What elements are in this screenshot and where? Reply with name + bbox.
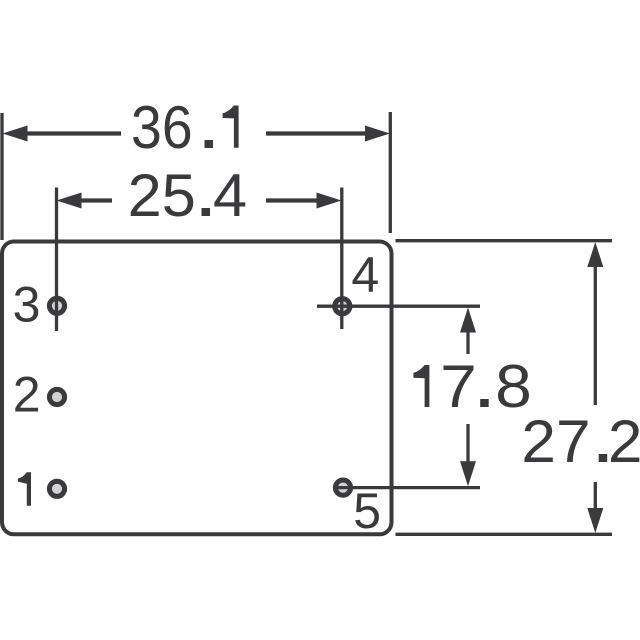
dimension 25.4 left arrow (57, 193, 113, 209)
extension line left of dimension 36.1 (0, 113, 3, 240)
extension line right of dimension 36.1 (389, 112, 392, 233)
pin 1 pad circle (49, 481, 64, 496)
package outline (rounded rectangle body) (2, 242, 392, 535)
pin 3 pad circle (49, 298, 64, 313)
extension line right of dimension 25.4 (through pin 4) (340, 188, 343, 330)
extension line bottom right (bottom of dimension 27.2) (396, 533, 613, 536)
extension line left of dimension 25.4 (through pin 3) (55, 188, 58, 332)
svg-text:4: 4 (351, 247, 379, 303)
extension line through pin 4 (top of dimension 17.8) (317, 305, 480, 308)
pin 4 pad circle (335, 299, 350, 314)
svg-text:27: 27 (521, 408, 590, 475)
pin 2 pad circle (49, 389, 64, 404)
dimension 27.2 upper arrow (587, 242, 603, 405)
pin 5 pad circle (335, 480, 350, 495)
dimension 36.1 right arrow (266, 126, 390, 142)
dimension 27.2 lower arrow (587, 482, 603, 533)
dimension 25.4 right arrow (266, 193, 342, 209)
svg-text:5: 5 (353, 483, 381, 539)
dimension 17.8 upper arrow (460, 308, 476, 355)
extension line from body top right (top of dimension 27.2) (396, 239, 613, 242)
svg-text:4: 4 (213, 162, 247, 229)
svg-text:7: 7 (440, 353, 477, 420)
svg-text:36: 36 (131, 94, 193, 161)
pin label 1 (18, 472, 31, 505)
svg-text:2: 2 (13, 367, 41, 423)
dimension 17.8 lower arrow (460, 424, 476, 486)
svg-text:2: 2 (608, 408, 640, 475)
svg-text:25: 25 (128, 162, 196, 229)
svg-text:3: 3 (13, 277, 41, 333)
dimension 36.1 left arrow (3, 126, 122, 142)
extension line through pin 5 (bottom of dimension 17.8) (334, 486, 480, 489)
